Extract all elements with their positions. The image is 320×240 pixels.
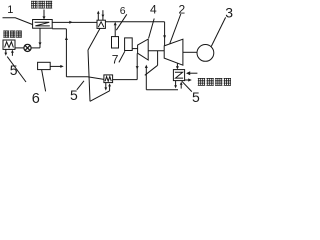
text 热废气 (31, 1, 52, 9)
pump 5 (24, 44, 31, 51)
cold hx up arrow (11, 51, 13, 55)
leader of label 3 (211, 17, 225, 46)
svg-text:5: 5 (10, 62, 18, 78)
cold hx down arrow (5, 49, 7, 54)
arrow in from right (190, 72, 198, 74)
sloped link to cold box (88, 77, 104, 80)
cold box up arrow (109, 86, 111, 91)
drain horizontal to pump (31, 47, 40, 49)
recuperator up arrow (97, 12, 99, 20)
M zigzag inside (105, 77, 111, 82)
pipe cold box to compressor riser (113, 79, 138, 81)
svg-text:6: 6 (32, 91, 40, 107)
leader of label 6 bottom (42, 70, 46, 92)
evaporator drain down arrow (39, 28, 41, 48)
svg-text:1: 1 (7, 4, 13, 16)
svg-text:2: 2 (179, 2, 186, 16)
diagonal pipe to riser (145, 65, 158, 75)
svg-text:6: 6 (120, 5, 126, 17)
shaft compressor-turbine (148, 50, 164, 52)
recuperator box 6 (97, 20, 105, 28)
text 输出冷量 (198, 78, 231, 86)
leader of label 7 (119, 51, 125, 62)
svg-text:7: 7 (112, 52, 119, 66)
compressor 4 (138, 39, 149, 60)
arrow down to turbine (163, 35, 166, 38)
M zigzag inside (5, 42, 14, 48)
condenser bottom up arrow (180, 84, 182, 89)
svg-text:4: 4 (150, 2, 157, 16)
recuperator down arrow (102, 10, 104, 20)
filter rect small (38, 62, 51, 69)
zigzag inside evaporator (35, 22, 50, 26)
main vapor pipe (52, 21, 97, 23)
arrow filter to riser (50, 65, 61, 67)
diagonal line near label 5 left (7, 57, 26, 82)
svg-text:3: 3 (225, 5, 233, 21)
feed riser to evaporator (65, 29, 67, 77)
arrow on vapor pipe (69, 21, 72, 24)
leader of label 2 (170, 14, 181, 44)
cold evaporator box middle (104, 75, 113, 83)
receiver rect1 (112, 37, 119, 48)
svg-text:5: 5 (192, 89, 200, 105)
leader of label 1 (3, 18, 33, 25)
bottom header pipe (66, 76, 87, 78)
zigzag inside condenser (175, 72, 183, 78)
condenser bottom down arrow (175, 81, 177, 87)
text 冷流进 (3, 31, 22, 38)
cold box down arrow (105, 83, 107, 89)
caret inside recuperator (98, 22, 104, 27)
pipe corner down to turbine (164, 22, 166, 46)
pipe pump to cold hx (15, 47, 24, 49)
cold hx box left (3, 40, 15, 49)
arrow hot-gas into evaporator (43, 10, 45, 18)
evaporator box 1 (33, 20, 53, 29)
leader of label 4 (149, 19, 155, 39)
turbine exhaust down (176, 63, 178, 67)
recuperator liquid downcomer (88, 28, 100, 50)
turbine 2 (164, 39, 183, 65)
leader of label 6 top (116, 14, 127, 30)
leader of label 5 bottom middle (77, 81, 84, 90)
riser from condenser return (145, 66, 147, 90)
arrow out to right (185, 79, 189, 81)
riser from rect1 to pipe (114, 25, 116, 37)
diagonal feed to cold box (90, 91, 110, 102)
compressor suction riser (136, 53, 138, 79)
condenser box bottom right (173, 70, 184, 81)
separator rect2 (125, 38, 133, 51)
link rect2 to compressor (132, 48, 137, 50)
bottom return pipe (146, 89, 178, 91)
leader of label 5 bottom right (182, 81, 192, 91)
generator 3 (197, 45, 214, 62)
shaft turbine-generator (183, 51, 197, 53)
evaporator bottom outlet pipe (52, 28, 66, 30)
drop pipe from shaft line (157, 51, 159, 66)
pipe after recuperator (105, 21, 164, 23)
